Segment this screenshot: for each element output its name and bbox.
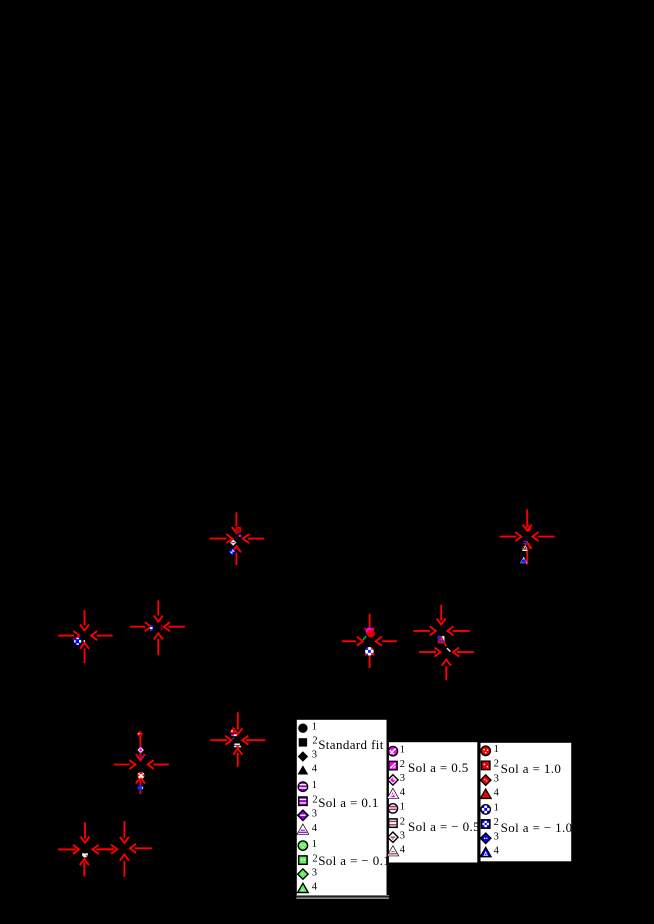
legend marker: Sol a = 0.5 triangle (magenta): [388, 789, 399, 798]
marker H: purple dash: [235, 745, 240, 746]
svg-text:3: 3: [400, 830, 405, 841]
cluster H bottom arrow: [234, 749, 242, 766]
svg-text:1: 1: [400, 744, 405, 755]
marker G: small purple diamond: [140, 756, 144, 760]
svg-text:2: 2: [400, 816, 405, 827]
svg-text:3: 3: [400, 773, 405, 784]
marker C: blue-white checker circle: [73, 637, 82, 646]
marker C: black circle: [80, 631, 89, 640]
cluster E bottom arrow: [366, 649, 374, 667]
svg-text:2: 2: [494, 759, 499, 770]
svg-text:1: 1: [312, 721, 317, 732]
svg-text:Standard fit: Standard fit: [318, 737, 384, 752]
svg-text:3: 3: [494, 832, 499, 843]
cluster J1 right arrow: [93, 845, 112, 853]
legend marker: Sol a = -1.0 circle (blue): [481, 805, 490, 814]
cluster B: long chevron arm (red diagonal): [528, 543, 530, 549]
legend marker: Sol a = 1.0 square (red): [482, 761, 490, 769]
legend marker: Sol a = 0.1 circle (purple): [298, 782, 307, 791]
marker A: magenta dot: [239, 535, 242, 538]
cluster D left arrow: [131, 623, 151, 631]
svg-text:1: 1: [400, 802, 405, 813]
cluster B bottom arrow: [523, 543, 531, 564]
legend box 1 right border: [387, 720, 389, 895]
svg-text:Sol a = 0.1: Sol a = 0.1: [318, 795, 379, 810]
legend marker: Sol a = -0.5 diamond (plum): [388, 832, 398, 842]
cluster H right arrow: [242, 736, 264, 744]
cluster C top arrow: [81, 611, 89, 631]
marker G: blue diamond: [137, 784, 144, 791]
cluster D right arrow: [164, 623, 184, 631]
marker E: green diagonal dash: [363, 636, 366, 640]
svg-text:Sol a = 0.5: Sol a = 0.5: [408, 760, 469, 775]
marker B: white-red triangle: [522, 545, 528, 551]
cluster J1 left arrow: [59, 845, 79, 853]
svg-text:4: 4: [400, 845, 406, 856]
legend marker: Standard fit circle (black): [298, 724, 307, 733]
legend marker: Sol a = 0.5 diamond (magenta): [388, 775, 398, 785]
cluster J1 bottom arrow: [80, 859, 88, 876]
svg-text:2: 2: [312, 794, 317, 805]
svg-text:3: 3: [494, 773, 499, 784]
cluster J2 left arrow: [100, 845, 117, 853]
marker F: red open triangle: [438, 637, 444, 643]
cluster H left arrow: [211, 736, 231, 744]
marker A: blue-white checker diamond: [229, 548, 236, 555]
svg-text:3: 3: [312, 809, 317, 820]
marker H: blue diagonal dash: [232, 738, 234, 740]
legend box 3 (Sol a = 1.0 / Sol a = -1.0): [481, 743, 572, 862]
marker B: purple dashes: [523, 541, 528, 544]
cluster A left arrow: [211, 535, 233, 543]
svg-text:4: 4: [312, 763, 318, 774]
marker H: white dash: [234, 744, 240, 745]
legend marker: Sol a = 0.5 square (magenta): [389, 761, 397, 769]
marker A: red hatched square: [235, 527, 241, 533]
svg-text:2: 2: [400, 759, 405, 770]
marker H: magenta-white dash: [231, 734, 236, 736]
svg-text:Sol a = − 0.5: Sol a = − 0.5: [408, 819, 480, 834]
svg-text:2: 2: [312, 736, 317, 747]
cluster C right arrow: [91, 632, 112, 640]
svg-text:1: 1: [494, 803, 499, 814]
cluster A top arrow: [232, 513, 240, 533]
cluster A bottom arrow: [232, 546, 240, 564]
legend marker: Sol a = -1.0 diamond (blue): [481, 833, 491, 843]
cluster F lower bottom arrow: [442, 660, 450, 680]
marker D: dark red dash: [161, 624, 163, 630]
marker D: blue-white capsule: [150, 625, 153, 631]
cluster J1 top arrow: [81, 823, 89, 842]
legend marker: Sol a = -1.0 triangle (blue): [480, 848, 491, 857]
svg-text:1: 1: [312, 780, 317, 791]
legend marker: Sol a = 0.5 circle (magenta): [388, 747, 397, 756]
cluster E top arrow: [366, 615, 374, 635]
marker C: white dot: [83, 640, 85, 642]
cluster H top arrow: [234, 713, 242, 734]
legend marker: Sol a = -0.1 diamond (green): [298, 869, 308, 879]
cluster B top arrow: [523, 510, 531, 530]
svg-text:3: 3: [312, 750, 317, 761]
cluster G top arrow: [136, 737, 144, 761]
legend box 2 (Sol a = 0.5 / Sol a = -0.5): [389, 742, 477, 862]
svg-text:1: 1: [312, 839, 317, 850]
marker F: blue-white square: [438, 636, 445, 643]
marker H: red triangle: [229, 726, 237, 733]
cluster D bottom arrow: [154, 633, 162, 654]
marker G: magenta-white diamond: [137, 747, 144, 754]
legend marker: Standard fit square (black): [299, 738, 307, 746]
cluster F lower left arrow: [420, 648, 441, 656]
svg-text:3: 3: [312, 867, 317, 878]
marker G: white-red circle: [138, 772, 145, 779]
legend marker: Sol a = -1.0 square (blue): [482, 820, 490, 828]
cluster A right arrow: [243, 535, 263, 543]
legend marker: Sol a = 0.1 triangle (purple): [298, 825, 309, 834]
legend box 3 left border: [478, 743, 480, 862]
marker H: white-red dash: [234, 746, 241, 748]
cluster G left arrow: [115, 761, 136, 769]
svg-text:Sol a = − 1.0: Sol a = − 1.0: [501, 820, 573, 835]
svg-text:1: 1: [494, 744, 499, 755]
legend marker: Standard fit diamond (black): [298, 751, 308, 761]
cluster B right arrow: [532, 533, 553, 541]
cluster E left arrow: [343, 637, 363, 645]
svg-text:4: 4: [494, 846, 500, 857]
svg-text:Sol a = − 0.1: Sol a = − 0.1: [318, 853, 390, 868]
legend marker: Sol a = 1.0 circle (red): [481, 746, 490, 755]
cluster F lower right arrow: [453, 648, 473, 656]
cluster C bottom arrow: [81, 643, 89, 663]
cluster J2 bottom arrow: [120, 854, 128, 876]
legend marker: Sol a = 1.0 triangle (red): [480, 789, 491, 798]
marker A: white diamond with plum stripe: [230, 539, 236, 545]
cluster J2 top arrow: [120, 822, 128, 843]
cluster E right arrow: [376, 637, 396, 645]
svg-text:Sol a = 1.0: Sol a = 1.0: [501, 761, 562, 776]
legend marker: Sol a = -0.1 triangle (green): [298, 883, 309, 892]
cluster D top arrow: [154, 601, 162, 621]
cluster F upper left arrow: [414, 627, 435, 635]
marker E: red circle: [367, 630, 375, 638]
legend marker: Sol a = 0.1 diamond (purple): [298, 810, 308, 820]
cluster G right arrow: [148, 761, 168, 769]
marker F: red diagonal dash: [443, 640, 447, 647]
legend marker: Sol a = -0.1 square (green): [299, 856, 307, 864]
cluster G bottom arrow: [136, 777, 144, 793]
legend marker: Sol a = -0.5 circle (plum): [388, 804, 397, 813]
legend marker: Sol a = -0.1 circle (green): [298, 841, 307, 850]
legend marker: Sol a = -0.5 triangle (plum): [388, 846, 399, 855]
legend marker: Sol a = -0.5 square (plum): [389, 819, 397, 827]
cluster F upper right arrow: [447, 627, 468, 635]
cluster F upper top arrow: [437, 606, 445, 625]
marker B: red open circle: [526, 526, 531, 531]
marker J1: white-blue-red circlet: [82, 852, 88, 858]
legend marker: Sol a = 1.0 diamond (red): [481, 775, 491, 785]
marker F: white diagonal dash: [447, 648, 450, 651]
svg-text:4: 4: [312, 881, 318, 892]
svg-text:2: 2: [494, 817, 499, 828]
cluster J2 right arrow: [130, 844, 151, 852]
legend box 1 bottom shadow lines: [296, 895, 389, 899]
marker E: magenta circle behind: [366, 627, 374, 635]
legend marker: Sol a = 0.1 square (purple): [299, 797, 307, 805]
cluster B left arrow: [501, 533, 522, 541]
svg-text:4: 4: [494, 787, 500, 798]
marker G: red diamond: [136, 731, 143, 738]
legend marker: Standard fit triangle (black): [298, 765, 309, 774]
marker J1: black circle: [81, 845, 89, 853]
legend box 1 (Standard fit / Sol a = 0.1 / Sol a = -0.1): [297, 720, 387, 895]
marker E: blue-white-red quartered circle: [365, 647, 374, 656]
marker B: blue triangle: [520, 557, 527, 563]
svg-text:2: 2: [312, 853, 317, 864]
svg-text:4: 4: [400, 787, 406, 798]
svg-text:4: 4: [312, 823, 318, 834]
cluster C left arrow: [59, 632, 80, 640]
